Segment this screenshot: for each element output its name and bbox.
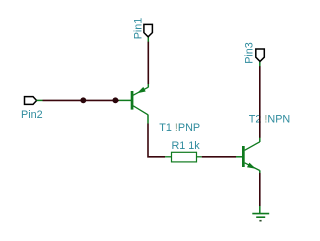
wire T1 emitter to Pin1 [147,42,149,85]
emitter diagonal [245,163,260,171]
wire Pin2 to T1 base [43,99,120,101]
svg-text:R1 1k: R1 1k [172,140,201,152]
emitter arrow (points out) [247,163,256,169]
pin lead of Pin1 [147,37,149,42]
emitter stub [147,84,149,88]
base lead [119,99,132,101]
junction dot A [80,97,86,103]
left lead [165,156,172,158]
body [172,152,197,162]
wire T2 emitter to ground [259,173,261,206]
svg-text:Pin3: Pin3 [244,42,256,64]
svg-text:T1 !PNP: T1 !PNP [159,122,200,134]
transistor T1 (PNP) [119,84,148,124]
terminal Pin3 [244,42,265,64]
right lead [197,156,202,158]
wire T1 collector to R1 [148,124,165,157]
pin lead of Pin3 [259,62,261,67]
collector stub [259,138,261,143]
svg-text:Pin1: Pin1 [132,18,144,40]
wire T2 collector to Pin3 [259,66,261,138]
resistor R1 [165,152,202,162]
pin lead of Pin2 [37,99,43,101]
junction dot B [112,97,118,103]
terminal Pin1 [132,18,152,40]
collector diagonal [133,106,148,115]
terminal Pin2 [21,97,43,122]
collector stub [147,115,149,124]
collector diagonal (to Pin3) [245,142,260,151]
emitter diagonal (to Pin1) [133,87,148,95]
ground [252,214,269,221]
emitter arrow (points to base) [137,87,146,93]
svg-text:T2 !NPN: T2 !NPN [249,113,290,125]
base lead [236,156,243,158]
transistor T2 (NPN) [236,138,260,174]
ground lead [259,206,261,214]
wire R1 to T2 base [202,156,236,158]
base bar [131,91,134,110]
base bar [242,146,245,167]
svg-text:Pin2: Pin2 [21,109,43,121]
emitter stub [259,170,261,173]
